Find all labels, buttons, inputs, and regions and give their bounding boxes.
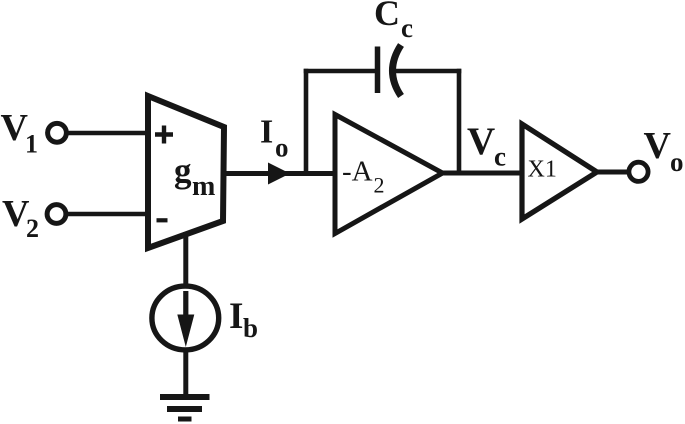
svg-text:V: V [467, 120, 495, 163]
svg-text:b: b [243, 313, 258, 343]
svg-text:c: c [401, 13, 413, 43]
svg-text:o: o [275, 133, 289, 163]
svg-text:g: g [174, 151, 192, 190]
svg-text:-A: -A [342, 156, 373, 188]
svg-text:m: m [192, 171, 215, 202]
svg-text:2: 2 [26, 214, 39, 243]
svg-text:X1: X1 [528, 157, 557, 183]
svg-text:I: I [229, 296, 243, 337]
svg-text:I: I [260, 114, 273, 151]
svg-text:C: C [374, 0, 400, 33]
svg-text:V: V [644, 125, 672, 167]
svg-text:2: 2 [374, 173, 385, 198]
svg-text:1: 1 [25, 130, 38, 159]
svg-text:o: o [670, 147, 684, 177]
svg-text:c: c [494, 142, 506, 172]
